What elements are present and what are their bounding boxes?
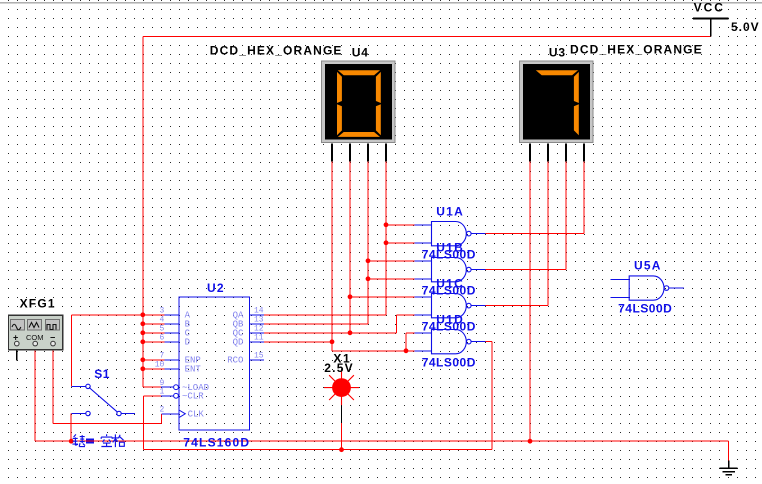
svg-text:11: 11 xyxy=(254,334,264,343)
svg-text:VCC: VCC xyxy=(694,1,725,15)
svg-text:~CLR: ~CLR xyxy=(182,392,204,402)
svg-text:U3: U3 xyxy=(549,45,566,59)
svg-text:XFG1: XFG1 xyxy=(20,297,56,311)
svg-text:U5A: U5A xyxy=(634,259,662,273)
svg-text:2.5V: 2.5V xyxy=(324,361,354,375)
svg-text:15: 15 xyxy=(254,352,264,361)
svg-text:74LS00D: 74LS00D xyxy=(422,283,476,297)
svg-text:U2: U2 xyxy=(207,281,225,295)
svg-text:RCO: RCO xyxy=(227,356,243,366)
svg-text:10: 10 xyxy=(155,361,165,370)
svg-text:2: 2 xyxy=(159,406,164,415)
svg-text:74LS00D: 74LS00D xyxy=(422,247,476,261)
svg-text:74LS00D: 74LS00D xyxy=(618,301,672,315)
svg-text:12: 12 xyxy=(254,325,264,334)
svg-text:U1A: U1A xyxy=(436,205,464,219)
svg-text:74LS00D: 74LS00D xyxy=(422,356,476,370)
svg-text:ENT: ENT xyxy=(185,365,202,375)
svg-text:13: 13 xyxy=(254,316,264,325)
svg-text:U4: U4 xyxy=(352,45,369,59)
svg-text:QD: QD xyxy=(233,338,244,348)
svg-text:4: 4 xyxy=(159,316,164,325)
svg-text:6: 6 xyxy=(159,334,164,343)
svg-text:COM: COM xyxy=(26,333,44,342)
svg-text:74LS160D: 74LS160D xyxy=(183,435,250,449)
svg-text:S1: S1 xyxy=(94,367,110,381)
svg-text:14: 14 xyxy=(254,307,264,316)
svg-text:7: 7 xyxy=(159,352,164,361)
svg-text:3: 3 xyxy=(159,307,164,316)
svg-text:74LS00D: 74LS00D xyxy=(422,319,476,333)
svg-text:1: 1 xyxy=(159,388,164,397)
svg-text:DCD_HEX_ORANGE: DCD_HEX_ORANGE xyxy=(570,43,703,57)
svg-text:CLK: CLK xyxy=(188,410,205,420)
svg-text:D: D xyxy=(185,338,190,348)
svg-text:DCD_HEX_ORANGE: DCD_HEX_ORANGE xyxy=(210,43,343,57)
svg-text:5: 5 xyxy=(159,325,164,334)
svg-text:5.0V: 5.0V xyxy=(731,20,760,34)
